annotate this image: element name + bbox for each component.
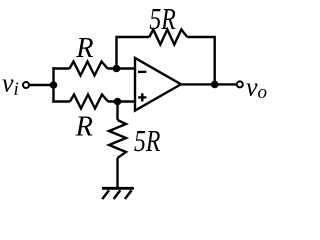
resistor R (bottom input) [70,95,108,109]
wire [116,158,118,190]
wire [117,37,150,69]
wire [52,100,70,102]
wire [181,83,237,85]
wire [108,100,136,102]
wire [52,67,69,69]
wire [52,67,54,102]
input terminal vi [23,82,29,88]
node A (input junction) [50,81,58,89]
resistor R (top input) [70,62,108,76]
svg-text:5R: 5R [134,123,160,158]
svg-text:R: R [75,32,94,64]
wire [116,102,118,121]
op-amp U1 [135,58,181,111]
wire [30,84,54,86]
node B (inverting input node) [113,65,121,73]
svg-text:vo: vo [246,73,267,104]
wire [187,37,214,84]
resistor 5R (to ground) [109,120,126,158]
wire [108,67,137,69]
node C (noninverting input node) [114,98,122,106]
resistor 5R (feedback) [149,30,187,45]
svg-text:5R: 5R [149,1,175,36]
svg-text:R: R [75,110,94,142]
svg-text:vi: vi [2,69,19,101]
node D (output node) [211,81,219,89]
ground [102,188,134,199]
output terminal vo [237,81,243,87]
